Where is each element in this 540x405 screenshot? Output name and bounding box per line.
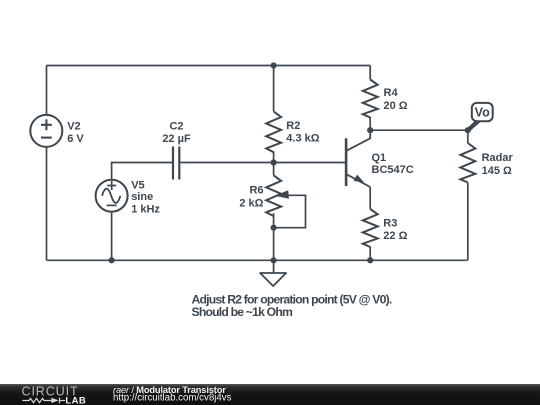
CircuitLab logo diode triangle: [51, 398, 58, 403]
wire Radar bottom: [467, 183, 469, 261]
wire collector rail to Vo node: [370, 129, 468, 131]
svg-text:22 Ω: 22 Ω: [383, 230, 407, 242]
label R2: [286, 120, 319, 145]
label V5: [131, 179, 160, 215]
resistor R2: [266, 111, 281, 152]
junction dot ground: [271, 257, 277, 263]
wire R4 bottom: [369, 117, 371, 130]
svg-text:145 Ω: 145 Ω: [482, 165, 512, 177]
svg-text:22 µF: 22 µF: [162, 133, 191, 145]
wire V2 bottom to bottom rail: [46, 147, 48, 261]
svg-text:4.3 kΩ: 4.3 kΩ: [286, 133, 319, 145]
wire R3 bottom: [369, 247, 371, 261]
voltage source V2: [30, 115, 62, 147]
svg-text:Q1: Q1: [372, 152, 387, 164]
junction dot collector / R4: [367, 127, 373, 133]
svg-text:sine: sine: [131, 191, 153, 203]
junction dot mid rail / R2-R6: [271, 159, 277, 165]
svg-text:Vo: Vo: [475, 105, 490, 119]
wire R2 top: [273, 66, 275, 112]
wire V5 bottom: [111, 212, 113, 260]
svg-text:Radar: Radar: [482, 152, 514, 164]
label Radar: [482, 152, 514, 177]
svg-text:R6: R6: [249, 185, 263, 197]
label Q1: [372, 152, 414, 176]
annotation text: [192, 293, 392, 319]
wire R4 top: [369, 66, 371, 80]
resistor Radar: [460, 143, 475, 183]
label V2: [67, 120, 84, 145]
label R3: [383, 218, 407, 242]
resistor R3: [363, 209, 378, 247]
svg-text:BC547C: BC547C: [372, 164, 414, 176]
label R4: [384, 87, 408, 112]
svg-text:2 kΩ: 2 kΩ: [239, 198, 263, 210]
wire R6 bottom: [273, 213, 275, 260]
svg-text:V5: V5: [131, 179, 144, 191]
CircuitLab logo resistor+diode line: [22, 398, 65, 404]
wire bottom rail: [47, 259, 468, 261]
wire R2 bottom: [273, 152, 275, 163]
svg-text:C2: C2: [169, 120, 183, 132]
junction dot V5 bottom: [109, 257, 115, 263]
wire top rail: [47, 65, 371, 67]
voltage source V5 (sine): [96, 180, 128, 212]
ground: [260, 260, 286, 286]
wire emitter to R3: [369, 187, 371, 209]
svg-text:Should be ~1k Ohm: Should be ~1k Ohm: [192, 305, 293, 319]
wire R6 top: [273, 163, 275, 176]
svg-text:6 V: 6 V: [67, 133, 84, 145]
svg-text:LAB: LAB: [65, 396, 86, 405]
wire V5 top to mid rail: [112, 163, 172, 181]
svg-text:http://circuitlab.com/cv8j4vs: http://circuitlab.com/cv8j4vs: [113, 393, 232, 404]
junction dot R6 wiper: [271, 225, 277, 231]
Q1 emitter arrow: [354, 175, 365, 183]
junction dot R3 bottom: [367, 257, 373, 263]
label C2: [162, 120, 191, 145]
label R6: [239, 185, 263, 210]
resistor R4: [363, 80, 378, 118]
transistor Q1: [346, 130, 370, 187]
capacitor C2: [173, 147, 179, 180]
wire left vertical (top rail to V2): [46, 66, 48, 116]
node Vo flag box: [472, 103, 493, 121]
svg-text:20 Ω: 20 Ω: [384, 100, 408, 112]
potentiometer R6: [266, 175, 305, 227]
svg-text:R3: R3: [383, 218, 397, 230]
wire Vo node down to Radar: [467, 130, 469, 143]
svg-text:R2: R2: [286, 120, 300, 132]
R6 wiper arrow: [275, 190, 289, 199]
wire C2 to base: [180, 162, 346, 164]
junction dot Vo node: [465, 127, 471, 133]
node Vo flag pole: [466, 118, 481, 131]
svg-text:R4: R4: [384, 87, 399, 99]
svg-text:1 kHz: 1 kHz: [131, 204, 160, 216]
junction dot top rail / R2: [271, 62, 277, 68]
svg-text:V2: V2: [67, 120, 80, 132]
